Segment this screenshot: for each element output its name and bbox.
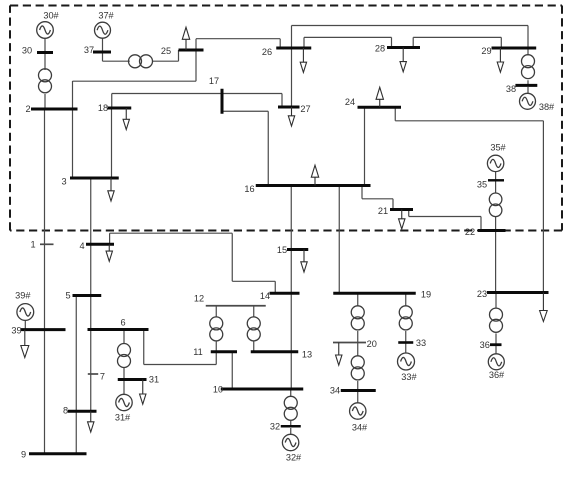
wire gen39 to bus39 xyxy=(24,320,26,329)
bus 10 xyxy=(221,388,304,391)
svg-text:2: 2 xyxy=(25,104,30,114)
transformer 10-32 xyxy=(284,396,297,420)
load arrow bus 8 xyxy=(88,411,94,432)
svg-text:23: 23 xyxy=(477,289,487,299)
bus 5 xyxy=(73,294,102,297)
generator 37# xyxy=(95,22,111,38)
bus 3 xyxy=(70,177,119,180)
wire bus19 to xfmr to bus20 xyxy=(357,293,359,342)
generator 38# xyxy=(520,93,536,109)
wire line 22-23 xyxy=(495,231,497,293)
wire line 28-29 xyxy=(413,37,501,48)
generator 36# xyxy=(488,354,504,370)
wire line 16-17 xyxy=(222,111,268,185)
wire line 26-29 top xyxy=(292,26,529,49)
dashed area border xyxy=(10,6,562,231)
svg-text:3: 3 xyxy=(61,177,66,187)
svg-text:35: 35 xyxy=(477,179,487,189)
wire line 16-21 xyxy=(362,186,393,210)
svg-text:32: 32 xyxy=(270,422,280,432)
wire line 26-27 xyxy=(291,48,293,107)
generator 30# xyxy=(37,22,54,39)
wire line 5-8-9 vertical xyxy=(75,296,77,454)
svg-text:37: 37 xyxy=(84,45,94,55)
bus 20 xyxy=(333,342,366,344)
bus 37 xyxy=(93,51,111,54)
load arrow bus 21 xyxy=(399,210,405,230)
wire bus23 to xfmr to bus36 to gen36 xyxy=(495,293,497,355)
wire bus22 to xfmr to bus35 to gen35 xyxy=(495,172,497,231)
svg-text:22: 22 xyxy=(465,227,475,237)
wire line 24-23 xyxy=(395,107,543,292)
wire line 2-3 and riser to 25-line xyxy=(72,81,74,178)
load arrow bus 39 xyxy=(21,330,29,358)
svg-text:34#: 34# xyxy=(352,423,368,433)
svg-text:38#: 38# xyxy=(539,102,555,112)
wire line 17-27 xyxy=(222,94,282,108)
transformer 23-36 xyxy=(490,308,503,332)
wire line 3-4-5-6-7-8 vertical xyxy=(90,178,92,411)
svg-text:5: 5 xyxy=(65,291,70,301)
load arrow bus 31 xyxy=(140,380,146,405)
bus 34 xyxy=(341,389,376,392)
bus 32 xyxy=(281,425,301,428)
load arrow bus 25 (up) xyxy=(182,27,189,50)
wire line 6-11 xyxy=(144,330,217,365)
bus 18 xyxy=(108,107,132,110)
bus 31 xyxy=(118,378,147,381)
transformer 12-11 xyxy=(210,317,223,341)
svg-text:39#: 39# xyxy=(15,291,31,301)
bus 33 xyxy=(398,341,413,344)
bus 27 xyxy=(278,106,300,109)
generator 31# xyxy=(116,394,132,410)
bus 9 xyxy=(29,452,87,455)
svg-text:39: 39 xyxy=(11,325,21,335)
load arrow bus 4 xyxy=(106,244,112,261)
wire xfmr to bus25 riser xyxy=(152,50,178,61)
svg-text:6: 6 xyxy=(120,318,125,328)
bus 26 xyxy=(276,47,311,50)
generator 39# xyxy=(17,304,34,321)
bus 14 xyxy=(270,292,300,295)
svg-text:31#: 31# xyxy=(115,413,131,423)
svg-text:24: 24 xyxy=(345,97,355,107)
bus 16 xyxy=(256,184,371,187)
transformer 30-2 xyxy=(39,69,52,93)
transformer 6-31 xyxy=(118,344,131,368)
svg-text:16: 16 xyxy=(244,184,254,194)
wire bus20 to xfmr to bus34 to gen34 xyxy=(357,343,359,404)
load arrow bus 26 xyxy=(300,48,306,72)
svg-text:33#: 33# xyxy=(401,372,417,382)
bus 35 xyxy=(488,179,504,181)
svg-text:29: 29 xyxy=(481,46,491,56)
svg-text:30: 30 xyxy=(22,45,32,55)
bus 36 xyxy=(490,343,502,346)
svg-text:4: 4 xyxy=(79,241,84,251)
bus 11 xyxy=(211,350,237,353)
svg-text:32#: 32# xyxy=(286,453,302,463)
svg-text:30#: 30# xyxy=(43,10,59,20)
svg-text:37#: 37# xyxy=(98,11,114,21)
bus 38 xyxy=(515,84,537,87)
bus 12 xyxy=(206,305,266,307)
svg-text:25: 25 xyxy=(161,46,171,56)
wire line 21-22 xyxy=(409,210,481,231)
wire bus12 to xfmr to bus11 xyxy=(215,306,217,352)
svg-text:33: 33 xyxy=(416,338,426,348)
svg-text:10: 10 xyxy=(213,385,223,395)
svg-text:19: 19 xyxy=(421,290,431,300)
transformer 20-34 xyxy=(351,356,364,380)
load arrow bus 29 xyxy=(497,48,503,72)
svg-text:38: 38 xyxy=(506,84,516,94)
bus 25 xyxy=(179,49,204,52)
wire bus12 to xfmr to bus13 xyxy=(253,306,255,352)
transformer 19-20 xyxy=(351,306,364,330)
load arrow bus 28 xyxy=(400,48,406,72)
wire line 16-15-14-13-10 vertical xyxy=(290,186,292,390)
generator 32# xyxy=(282,434,298,450)
bus 13 xyxy=(251,350,299,353)
wire bus19 to xfmr to bus33 xyxy=(405,293,407,342)
load arrow bus 27 xyxy=(288,107,294,126)
svg-text:21: 21 xyxy=(378,206,388,216)
generator 35# xyxy=(487,155,503,171)
wire line 1-2 / 1-39 / 9-39 long left vertical xyxy=(44,109,46,454)
bus 29 xyxy=(492,47,537,50)
svg-text:26: 26 xyxy=(262,47,272,57)
bus 19 xyxy=(333,292,416,295)
svg-text:28: 28 xyxy=(375,44,385,54)
wire line 16-24 xyxy=(364,107,366,185)
load arrow bus 23 xyxy=(540,293,548,322)
load arrow bus 18 xyxy=(123,108,129,130)
wire bus10 to xfmr to bus32 to gen32 xyxy=(290,389,292,435)
wire line 3-18 xyxy=(111,108,113,178)
svg-text:18: 18 xyxy=(98,103,108,113)
wire gen37 to bus37 to xfmr xyxy=(103,38,130,62)
bus 17 xyxy=(221,89,224,114)
wire line 26-28 xyxy=(304,37,392,48)
svg-text:14: 14 xyxy=(260,291,270,301)
bus 23 xyxy=(487,291,549,294)
transformer 29-38 xyxy=(522,55,535,79)
svg-text:35#: 35# xyxy=(490,143,506,153)
svg-text:36#: 36# xyxy=(489,370,505,380)
svg-text:11: 11 xyxy=(193,347,203,357)
wire line 10-11 xyxy=(231,352,233,389)
bus 2 xyxy=(31,108,78,111)
svg-text:1: 1 xyxy=(30,240,35,250)
wire line 17-18 xyxy=(112,94,222,109)
bus 39 xyxy=(21,328,66,331)
bus 6 xyxy=(88,328,149,331)
load arrow bus 16 (up) xyxy=(311,165,318,185)
bus 4 xyxy=(86,243,114,246)
svg-text:34: 34 xyxy=(330,386,340,396)
load arrow bus 3 xyxy=(108,178,114,201)
wire line 29-38 stack xyxy=(527,48,529,94)
load arrow bus 15 xyxy=(301,250,307,273)
wire gen30 stack / bus30 to xfmr to bus2 xyxy=(44,38,46,108)
wire line 25-26 xyxy=(196,39,280,50)
transformer 22-35 xyxy=(489,193,502,217)
bus 15 xyxy=(287,248,308,251)
svg-text:20: 20 xyxy=(367,339,377,349)
wire line 4-14 xyxy=(110,233,276,293)
wire line 16-19 xyxy=(338,186,340,294)
bus 30 xyxy=(37,51,53,54)
svg-text:17: 17 xyxy=(209,76,219,86)
wire bus6 to xfmr to bus31 to gen31 xyxy=(123,330,125,395)
load arrow bus 20 xyxy=(336,343,342,366)
svg-text:9: 9 xyxy=(21,450,26,460)
transformer 12-13 xyxy=(247,317,260,341)
bus 28 xyxy=(387,46,420,49)
wire line 2-25 horizontal + riser xyxy=(73,50,197,81)
bus 1 xyxy=(40,243,54,245)
transformer 19-33 xyxy=(399,306,412,330)
load arrow bus 24 (up) xyxy=(376,87,383,107)
svg-text:7: 7 xyxy=(100,372,105,382)
svg-text:15: 15 xyxy=(277,245,287,255)
bus 21 xyxy=(390,208,413,211)
wire bus33 to gen33 xyxy=(405,343,407,355)
svg-text:12: 12 xyxy=(194,294,204,304)
svg-text:36: 36 xyxy=(480,340,490,350)
svg-text:8: 8 xyxy=(63,406,68,416)
svg-text:31: 31 xyxy=(149,375,159,385)
bus 24 xyxy=(358,106,402,109)
bus 8 xyxy=(68,410,97,413)
svg-text:13: 13 xyxy=(302,350,312,360)
bus 22 xyxy=(478,229,506,232)
svg-text:27: 27 xyxy=(300,104,310,114)
generator 34# xyxy=(350,403,366,419)
bus 7 xyxy=(88,373,98,375)
transformer 37-25 xyxy=(129,55,153,68)
generator 33# xyxy=(398,353,415,370)
